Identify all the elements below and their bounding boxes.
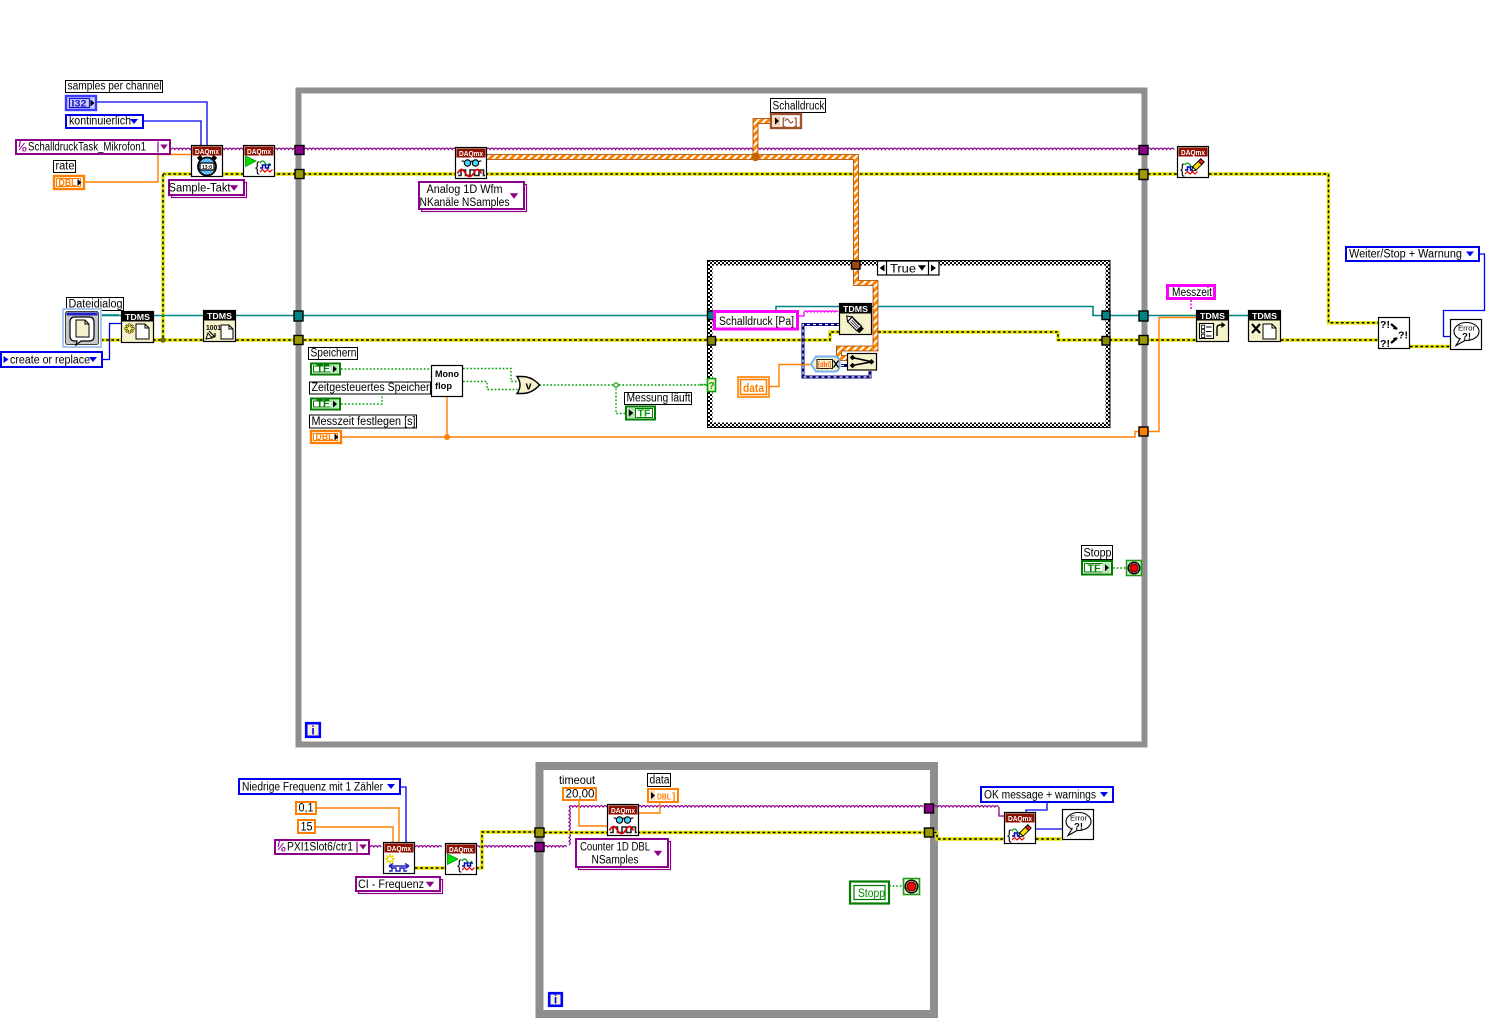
svg-text:20,00: 20,00 [566, 787, 595, 801]
svg-text:I32: I32 [72, 99, 87, 109]
svg-text:[dbl]: [dbl] [818, 362, 831, 369]
svg-text:Analog 1D Wfm: Analog 1D Wfm [427, 184, 503, 196]
svg-text:DAQmx: DAQmx [459, 149, 484, 158]
svg-text:Mono: Mono [435, 369, 459, 379]
svg-text:TF: TF [317, 364, 330, 375]
svg-text:i: i [311, 724, 314, 738]
svg-text:DBL: DBL [316, 432, 334, 443]
svg-text:Messzeit festlegen [s]: Messzeit festlegen [s] [312, 416, 416, 428]
svg-text:DAQmx: DAQmx [449, 845, 474, 854]
svg-text:kontinuierlich: kontinuierlich [69, 116, 131, 128]
svg-text:SchalldruckTask_Mikrofon1: SchalldruckTask_Mikrofon1 [28, 142, 146, 154]
svg-text:TDMS: TDMS [207, 312, 233, 321]
svg-text:1001: 1001 [206, 323, 221, 332]
svg-text:Schalldruck [Pa]: Schalldruck [Pa] [719, 316, 794, 328]
svg-text:TF: TF [638, 409, 651, 420]
svg-text:15: 15 [301, 820, 313, 834]
svg-text:True: True [890, 264, 916, 276]
svg-text:NSamples: NSamples [592, 855, 639, 867]
svg-text:TDMS: TDMS [1200, 312, 1226, 321]
svg-text:timeout: timeout [559, 773, 596, 787]
svg-text:Stopp: Stopp [858, 888, 885, 900]
svg-text:rate: rate [56, 161, 75, 173]
svg-text:PXI1Slot6/ctr1: PXI1Slot6/ctr1 [287, 842, 353, 854]
svg-text:Messzeit: Messzeit [1172, 287, 1213, 299]
svg-text:Niedrige Frequenz mit 1 Zähler: Niedrige Frequenz mit 1 Zähler [242, 782, 383, 794]
svg-text:TDMS: TDMS [1252, 312, 1278, 321]
svg-text:Counter 1D DBL: Counter 1D DBL [580, 842, 651, 854]
svg-text:v: v [526, 381, 533, 393]
svg-text:13:0: 13:0 [202, 165, 212, 171]
svg-text:?: ? [708, 381, 714, 392]
svg-text:Sample-Takt: Sample-Takt [169, 183, 232, 195]
svg-text:o: o [22, 145, 27, 154]
svg-text:Zeitgesteuertes Speicher: Zeitgesteuertes Speicher [312, 382, 430, 394]
svg-text:TF: TF [317, 399, 330, 410]
svg-text:flop: flop [435, 381, 453, 391]
svg-text:?!: ?! [1380, 339, 1390, 350]
svg-text:DAQmx: DAQmx [195, 147, 220, 156]
svg-text:DBL: DBL [59, 178, 77, 189]
svg-text:TF: TF [1088, 564, 1101, 575]
svg-text:data: data [743, 383, 765, 395]
svg-text:{: { [1180, 161, 1185, 177]
svg-text:]: ] [794, 117, 797, 128]
svg-text:DAQmx: DAQmx [611, 806, 636, 815]
svg-text:TDMS: TDMS [843, 305, 869, 314]
svg-text:create or replace: create or replace [10, 355, 90, 367]
svg-text:DAQmx: DAQmx [1008, 814, 1033, 823]
svg-text:{: { [457, 857, 462, 873]
svg-text:DAQmx: DAQmx [387, 844, 412, 853]
svg-text:Messung läuft: Messung läuft [627, 393, 692, 405]
svg-text:DBL: DBL [657, 792, 671, 802]
svg-text:OK message + warnings: OK message + warnings [984, 790, 1096, 802]
svg-text:samples per channel: samples per channel [68, 81, 162, 93]
svg-text:DAQmx: DAQmx [1181, 148, 1206, 157]
svg-text:Stopp: Stopp [1084, 548, 1112, 560]
svg-text:?!: ?! [1380, 320, 1390, 331]
svg-text:Schalldruck: Schalldruck [773, 101, 825, 113]
svg-text:{: { [255, 159, 260, 175]
svg-text:DAQmx: DAQmx [247, 147, 272, 156]
svg-text:NKanäle NSamples: NKanäle NSamples [420, 197, 510, 209]
svg-text:data: data [650, 775, 671, 787]
svg-text:?!: ?! [1462, 332, 1471, 343]
svg-text:TDMS: TDMS [125, 313, 151, 322]
svg-text:Speichern: Speichern [311, 348, 357, 360]
svg-text:o: o [281, 845, 286, 854]
svg-text:Weiter/Stop + Warnung: Weiter/Stop + Warnung [1349, 249, 1462, 261]
svg-text:CI - Frequenz: CI - Frequenz [358, 879, 424, 891]
svg-text:{: { [1007, 827, 1012, 843]
svg-text:?!: ?! [1074, 822, 1083, 833]
svg-text:0,1: 0,1 [299, 801, 314, 815]
svg-text:]: ] [672, 792, 675, 803]
svg-text:?!: ?! [1398, 331, 1408, 342]
svg-text:i: i [554, 993, 557, 1007]
